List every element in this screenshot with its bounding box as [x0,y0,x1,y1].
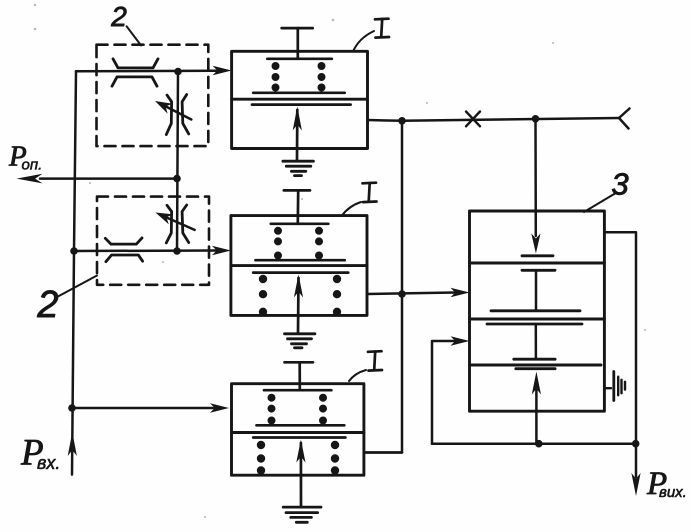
svg-text:2: 2 [110,1,127,32]
svg-text:вх.: вх. [37,453,60,473]
svg-text:2: 2 [36,284,58,326]
svg-text:оп.: оп. [22,157,43,174]
svg-text:вих.: вих. [659,484,687,501]
svg-text:3: 3 [611,167,628,202]
